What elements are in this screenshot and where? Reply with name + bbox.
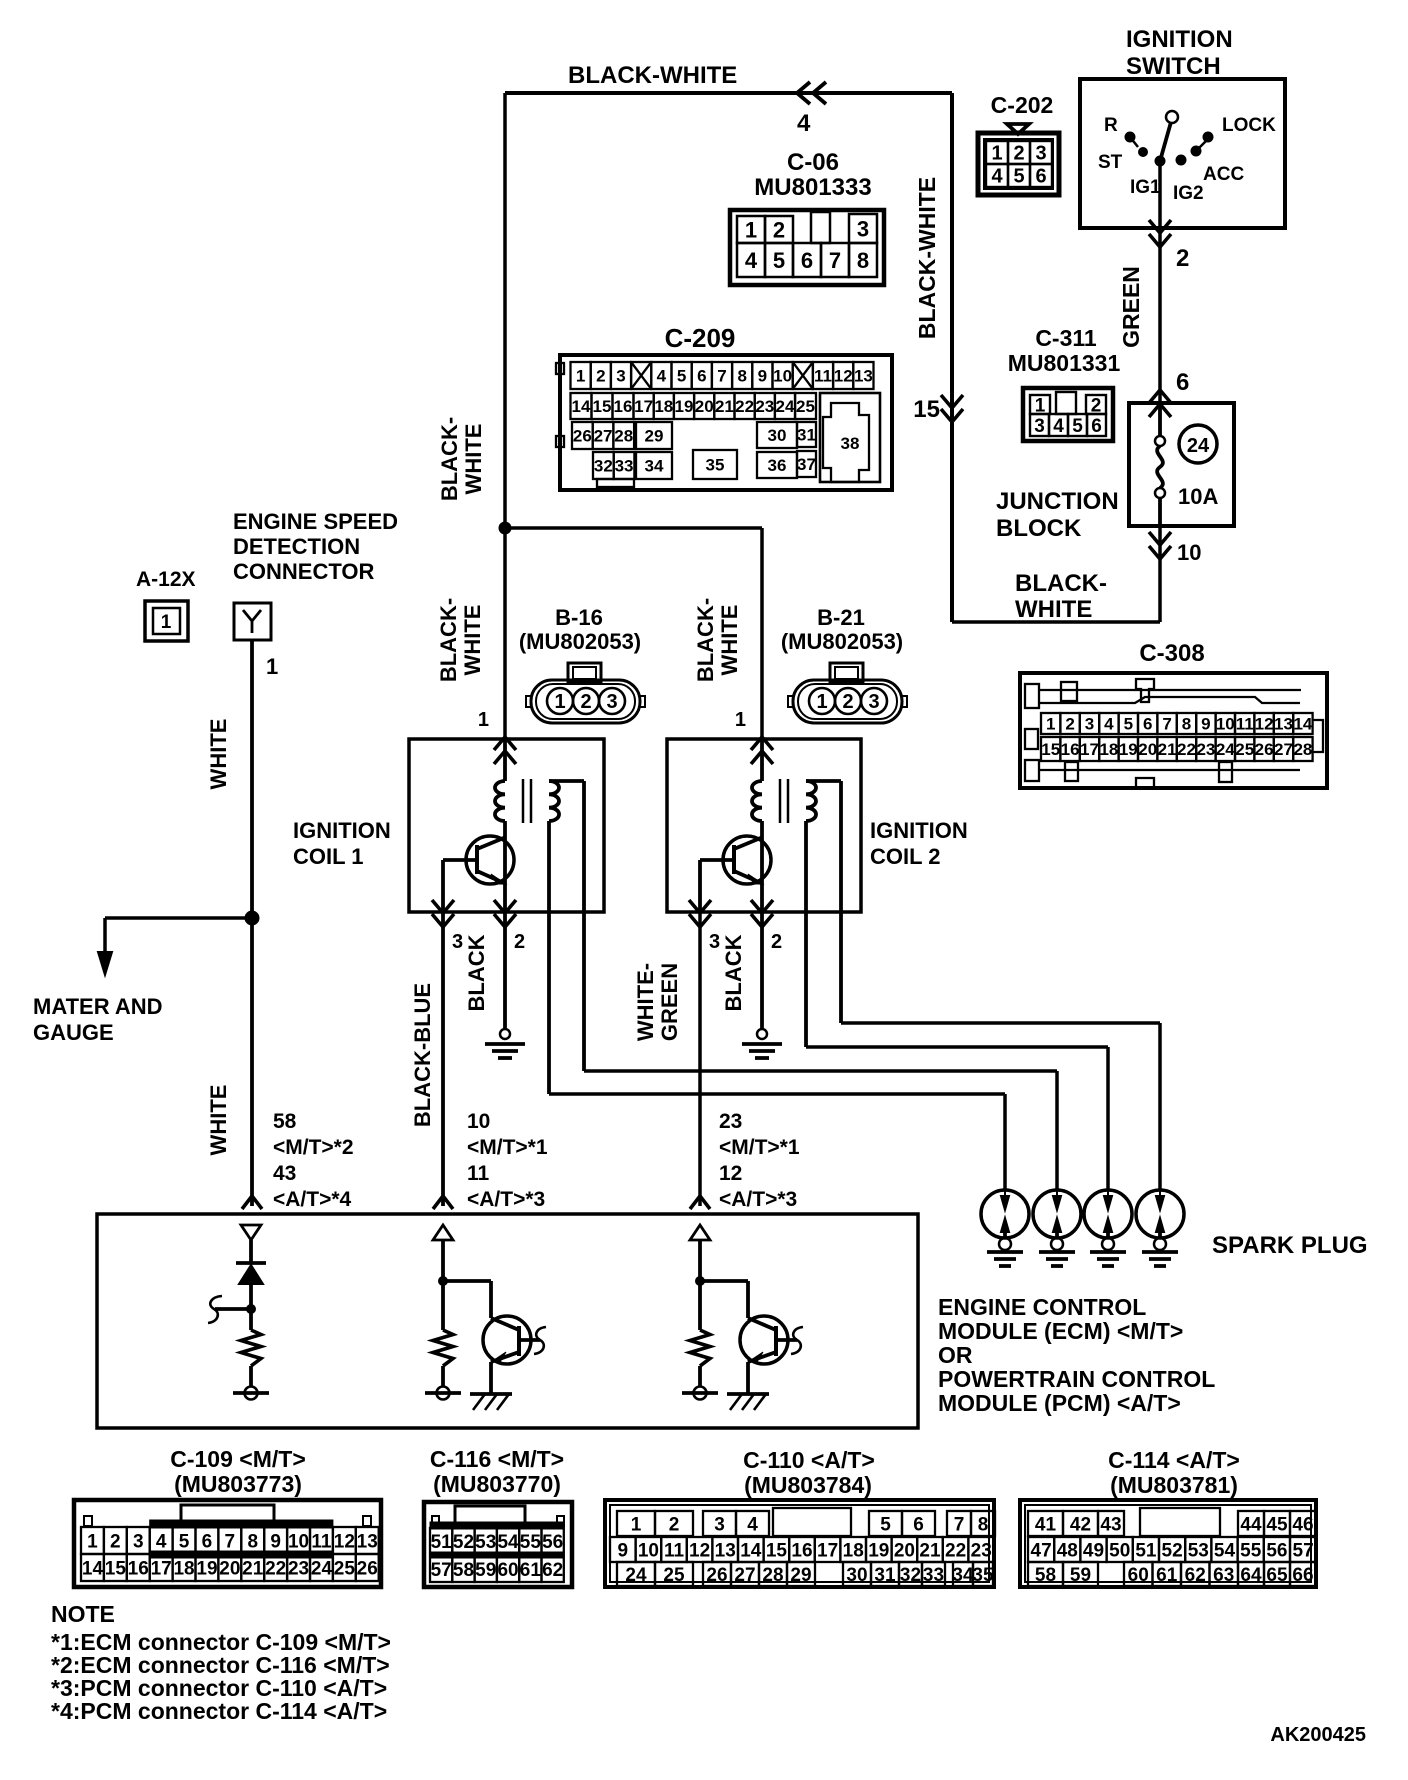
svg-text:62: 62	[542, 1560, 563, 1581]
svg-text:14: 14	[572, 397, 591, 416]
svg-text:61: 61	[520, 1560, 542, 1581]
svg-text:9: 9	[270, 1531, 281, 1552]
svg-text:42: 42	[1070, 1514, 1091, 1535]
svg-text:28: 28	[762, 1565, 783, 1586]
svg-text:(MU803770): (MU803770)	[433, 1471, 561, 1497]
svg-text:31: 31	[874, 1565, 896, 1586]
svg-text:BLACK: BLACK	[464, 934, 489, 1011]
connector C-311	[1023, 388, 1113, 441]
chassis ground channel 3	[727, 1392, 769, 1396]
wire ignition switch output green	[1158, 163, 1162, 403]
svg-text:AK200425: AK200425	[1270, 1724, 1366, 1746]
svg-text:29: 29	[790, 1565, 811, 1586]
svg-text:6: 6	[202, 1531, 213, 1552]
svg-text:34: 34	[952, 1565, 974, 1586]
svg-text:4: 4	[745, 248, 758, 273]
svg-text:14: 14	[82, 1558, 104, 1579]
svg-text:16: 16	[614, 397, 633, 416]
svg-text:53: 53	[1188, 1540, 1209, 1561]
svg-text:LOCK: LOCK	[1222, 115, 1276, 136]
svg-text:2: 2	[580, 691, 591, 713]
svg-text:4: 4	[747, 1514, 758, 1535]
coil 1 secondary winding	[549, 781, 559, 821]
svg-text:12: 12	[834, 367, 853, 386]
svg-text:14: 14	[1293, 715, 1312, 734]
svg-text:BLACK-BLUE: BLACK-BLUE	[410, 983, 435, 1127]
svg-text:25: 25	[334, 1558, 356, 1579]
svg-text:6: 6	[801, 248, 813, 273]
svg-text:C-06: C-06	[787, 149, 839, 176]
coil 2 core	[779, 779, 782, 823]
svg-text:12: 12	[719, 1162, 742, 1185]
spark plug 1	[981, 1190, 1029, 1238]
svg-text:25: 25	[663, 1565, 685, 1586]
wire coil 2 pin 2 to ground	[760, 912, 764, 1029]
svg-text:3: 3	[868, 691, 879, 713]
svg-text:58: 58	[453, 1560, 474, 1581]
svg-text:35: 35	[706, 456, 725, 475]
svg-text:64: 64	[1240, 1565, 1262, 1586]
svg-text:BLACK: BLACK	[721, 934, 746, 1011]
node junction dot channel 2	[439, 1277, 448, 1286]
wire right vertical black-white	[950, 93, 954, 622]
connector C-116	[424, 1502, 572, 1587]
wire coil1 secondary bottom to spark plug 1	[549, 1092, 1005, 1096]
wire junction horizontal to coil 2	[505, 526, 762, 530]
svg-text:43: 43	[273, 1162, 296, 1185]
svg-text:44: 44	[1240, 1514, 1262, 1535]
svg-text:C-116 <M/T>: C-116 <M/T>	[430, 1446, 564, 1472]
connector C-109 shading	[150, 1520, 333, 1528]
ground coil 1	[500, 1029, 510, 1039]
wire arrows down coil 2 pins	[689, 900, 711, 913]
wire arrows down coil 1 pins	[432, 900, 454, 913]
svg-text:54: 54	[497, 1532, 519, 1553]
svg-text:9: 9	[618, 1540, 629, 1561]
connector C-308	[1020, 673, 1327, 788]
svg-text:22: 22	[1177, 740, 1196, 759]
svg-text:GREEN: GREEN	[657, 963, 682, 1041]
engine speed detection connector symbol	[234, 603, 271, 640]
svg-text:4: 4	[991, 166, 1003, 188]
connector A-12X	[145, 601, 188, 641]
svg-text:BLACK-: BLACK-	[437, 417, 462, 501]
svg-text:53: 53	[475, 1532, 496, 1553]
svg-text:6: 6	[913, 1514, 924, 1535]
svg-text:SPARK PLUG: SPARK PLUG	[1212, 1232, 1368, 1259]
wire coil 2 pin 3 to ECM	[698, 912, 702, 1206]
svg-text:20: 20	[1138, 740, 1157, 759]
svg-text:55: 55	[1240, 1540, 1262, 1561]
svg-text:CONNECTOR: CONNECTOR	[233, 559, 374, 584]
svg-text:18: 18	[654, 397, 673, 416]
svg-text:1: 1	[478, 709, 489, 731]
svg-text:5: 5	[677, 367, 686, 386]
wire arrow up into junction block	[1149, 404, 1171, 417]
svg-text:33: 33	[615, 457, 634, 476]
svg-text:IG1: IG1	[1130, 177, 1161, 198]
svg-text:7: 7	[717, 367, 726, 386]
svg-text:WHITE: WHITE	[206, 719, 231, 790]
connector C-209 detail nubs	[556, 363, 564, 374]
svg-text:20: 20	[894, 1540, 915, 1561]
svg-text:1: 1	[161, 612, 172, 633]
svg-text:3: 3	[452, 931, 463, 953]
ground coil 2	[757, 1029, 767, 1039]
svg-text:3: 3	[1034, 416, 1045, 437]
svg-text:3: 3	[616, 367, 625, 386]
svg-text:55: 55	[520, 1532, 542, 1553]
svg-text:28: 28	[1293, 740, 1312, 759]
svg-text:21: 21	[715, 397, 734, 416]
svg-text:4: 4	[797, 110, 811, 137]
resistor ECM channel 1	[241, 1330, 261, 1366]
svg-text:16: 16	[791, 1540, 812, 1561]
connector C-202 index triangle	[1007, 124, 1029, 134]
svg-text:ENGINE SPEED: ENGINE SPEED	[233, 509, 398, 534]
svg-text:ENGINE CONTROL: ENGINE CONTROL	[938, 1294, 1146, 1320]
wire emitter to chassis ground channel 3	[746, 1362, 750, 1394]
svg-text:25: 25	[1235, 740, 1254, 759]
svg-text:19: 19	[1119, 740, 1138, 759]
svg-text:19: 19	[675, 397, 694, 416]
svg-text:1: 1	[87, 1531, 98, 1552]
svg-text:7: 7	[225, 1531, 236, 1552]
wire arrow down below junction block	[1158, 526, 1162, 622]
svg-text:52: 52	[453, 1532, 474, 1553]
svg-text:12: 12	[1255, 715, 1274, 734]
svg-text:C-308: C-308	[1139, 640, 1204, 667]
svg-text:5: 5	[1072, 416, 1083, 437]
svg-text:47: 47	[1031, 1540, 1052, 1561]
svg-text:MATER AND: MATER AND	[33, 994, 163, 1019]
connector C-209	[560, 355, 892, 490]
ECM input chevron channel 1	[242, 1196, 262, 1209]
svg-text:C-311: C-311	[1035, 325, 1097, 351]
svg-text:17: 17	[817, 1540, 838, 1561]
spark plug 3	[1084, 1190, 1132, 1238]
svg-text:24: 24	[625, 1565, 647, 1586]
fuse 24 10A	[1158, 403, 1162, 436]
wire arrow down at switch output	[1149, 220, 1171, 233]
svg-text:A-12X: A-12X	[136, 568, 196, 591]
svg-text:32: 32	[594, 457, 613, 476]
svg-text:MU801331: MU801331	[1008, 350, 1121, 376]
svg-text:51: 51	[1135, 1540, 1157, 1561]
svg-text:DETECTION: DETECTION	[233, 534, 360, 559]
svg-text:20: 20	[695, 397, 714, 416]
svg-text:1: 1	[816, 691, 827, 713]
svg-text:23: 23	[971, 1540, 992, 1561]
svg-text:2: 2	[1176, 245, 1189, 272]
svg-text:C-109 <M/T>: C-109 <M/T>	[170, 1446, 306, 1472]
svg-text:22: 22	[735, 397, 754, 416]
svg-text:4: 4	[1053, 416, 1064, 437]
svg-text:49: 49	[1083, 1540, 1104, 1561]
svg-text:BLACK-WHITE: BLACK-WHITE	[914, 177, 940, 339]
svg-text:9: 9	[1201, 715, 1210, 734]
connector C-110	[605, 1500, 994, 1587]
wire coil 1 base to pin 3	[441, 860, 445, 912]
svg-text:11: 11	[814, 367, 832, 386]
svg-text:2: 2	[842, 691, 853, 713]
svg-text:B-16: B-16	[555, 605, 603, 630]
svg-text:3: 3	[133, 1531, 144, 1552]
svg-text:10: 10	[1216, 715, 1235, 734]
svg-text:WHITE: WHITE	[717, 605, 742, 676]
transistor coil 2	[723, 836, 771, 884]
ECM input triangle channel 3	[690, 1225, 710, 1240]
svg-text:8: 8	[857, 248, 869, 273]
wire coil 1 secondary top	[549, 779, 584, 783]
svg-text:12: 12	[334, 1531, 355, 1552]
svg-text:18: 18	[843, 1540, 864, 1561]
svg-text:45: 45	[1266, 1514, 1288, 1535]
svg-text:13: 13	[357, 1531, 378, 1552]
svg-text:15: 15	[913, 396, 940, 423]
svg-text:10: 10	[1177, 540, 1201, 565]
svg-text:<M/T>*1: <M/T>*1	[719, 1136, 800, 1159]
ECM input triangle channel 2	[433, 1225, 453, 1240]
svg-text:21: 21	[919, 1540, 941, 1561]
svg-text:8: 8	[978, 1514, 989, 1535]
svg-text:(MU802053): (MU802053)	[519, 629, 641, 654]
svg-text:54: 54	[1214, 1540, 1236, 1561]
svg-text:10: 10	[773, 367, 792, 386]
connector C-116 shading	[430, 1522, 564, 1529]
svg-text:23: 23	[719, 1110, 742, 1133]
svg-text:26: 26	[706, 1565, 727, 1586]
chassis ground channel 2	[470, 1392, 512, 1396]
svg-text:36: 36	[768, 456, 787, 475]
svg-text:5: 5	[1124, 715, 1133, 734]
svg-text:33: 33	[923, 1565, 944, 1586]
svg-text:B-21: B-21	[817, 605, 865, 630]
svg-text:2: 2	[1013, 143, 1024, 165]
connector C-209 cavity 38	[820, 393, 880, 482]
ignition coil 1 box	[409, 739, 604, 912]
wire break squiggle channel 1	[215, 1307, 251, 1311]
spark plug 2	[1033, 1190, 1081, 1238]
svg-text:30: 30	[768, 426, 787, 445]
svg-text:51: 51	[431, 1532, 453, 1553]
svg-text:18: 18	[1099, 740, 1118, 759]
svg-text:<A/T>*3: <A/T>*3	[467, 1188, 545, 1211]
wire coil 2 base to pin 3	[698, 860, 702, 912]
wire arrow down on right vertical	[941, 395, 963, 408]
svg-text:IGNITION: IGNITION	[870, 818, 968, 843]
svg-text:MODULE (PCM) <A/T>: MODULE (PCM) <A/T>	[938, 1390, 1181, 1416]
svg-text:24: 24	[311, 1558, 333, 1579]
wire coil 2 secondary top	[806, 779, 841, 783]
svg-text:NOTE: NOTE	[51, 1601, 115, 1627]
ignition switch rotary contacts	[1155, 156, 1165, 166]
svg-text:11: 11	[467, 1162, 490, 1185]
svg-text:17: 17	[1080, 740, 1099, 759]
svg-text:2: 2	[110, 1531, 121, 1552]
svg-text:11: 11	[311, 1531, 332, 1552]
svg-text:27: 27	[594, 427, 613, 446]
svg-text:62: 62	[1185, 1565, 1206, 1586]
svg-text:27: 27	[734, 1565, 755, 1586]
wire emitter to chassis ground channel 2	[489, 1362, 493, 1394]
svg-text:2: 2	[771, 931, 782, 953]
wire coil 2 secondary bottom	[804, 821, 808, 1047]
svg-text:41: 41	[1035, 1514, 1057, 1535]
coil 1 core	[522, 779, 525, 823]
svg-text:1: 1	[576, 367, 585, 386]
svg-text:30: 30	[846, 1565, 867, 1586]
coil 2 secondary winding	[806, 781, 816, 821]
svg-text:4: 4	[657, 367, 667, 386]
ECM box	[97, 1214, 918, 1428]
node junction dot channel 1	[247, 1305, 256, 1314]
connector C-114	[1020, 1500, 1316, 1587]
svg-text:<M/T>*2: <M/T>*2	[273, 1136, 354, 1159]
svg-text:6: 6	[1176, 369, 1189, 396]
svg-text:IG2: IG2	[1173, 183, 1204, 204]
connector B-21	[830, 663, 863, 682]
wire black-white top horizontal	[505, 91, 952, 95]
svg-text:10A: 10A	[1178, 484, 1218, 509]
svg-text:13: 13	[1274, 715, 1293, 734]
connector B-16	[568, 663, 601, 682]
svg-text:WHITE-: WHITE-	[633, 963, 658, 1041]
svg-text:21: 21	[1158, 740, 1177, 759]
svg-text:15: 15	[1041, 740, 1060, 759]
svg-text:14: 14	[740, 1540, 762, 1561]
svg-text:29: 29	[645, 427, 664, 446]
svg-text:3: 3	[1085, 715, 1094, 734]
ECM input chevron channel 3	[690, 1196, 710, 1209]
svg-text:15: 15	[766, 1540, 788, 1561]
svg-text:5: 5	[179, 1531, 190, 1552]
resistor ECM channel 2	[433, 1330, 453, 1366]
svg-text:BLACK-: BLACK-	[693, 598, 718, 682]
svg-text:48: 48	[1057, 1540, 1078, 1561]
svg-text:R: R	[1104, 115, 1118, 136]
svg-text:WHITE: WHITE	[206, 1085, 231, 1156]
svg-text:1: 1	[735, 709, 746, 731]
svg-text:WHITE: WHITE	[461, 424, 486, 495]
svg-text:4: 4	[156, 1531, 167, 1552]
coil 1 primary winding	[503, 739, 507, 781]
svg-text:37: 37	[797, 455, 816, 474]
wire coil2 secondary bottom to spark plug 3	[806, 1045, 1108, 1049]
wire white from detection connector	[250, 640, 254, 1206]
svg-text:38: 38	[841, 434, 860, 453]
svg-text:61: 61	[1156, 1565, 1178, 1586]
svg-text:IGNITION: IGNITION	[1126, 26, 1233, 53]
svg-text:OR: OR	[938, 1342, 973, 1368]
svg-text:9: 9	[758, 367, 767, 386]
svg-text:5: 5	[773, 248, 785, 273]
svg-text:19: 19	[196, 1558, 217, 1579]
svg-text:COIL 1: COIL 1	[293, 844, 364, 869]
svg-text:60: 60	[497, 1560, 518, 1581]
svg-text:1: 1	[745, 217, 757, 242]
node junction dot white wire	[245, 911, 259, 925]
svg-text:26: 26	[573, 427, 592, 446]
wire arrow up coil 2 pin 1	[751, 751, 773, 764]
svg-text:1: 1	[991, 143, 1002, 165]
svg-text:BLACK-WHITE: BLACK-WHITE	[568, 62, 737, 89]
svg-text:24: 24	[1216, 740, 1235, 759]
wire left vertical black-white	[503, 93, 507, 739]
svg-text:24: 24	[1187, 435, 1210, 457]
svg-text:66: 66	[1292, 1565, 1313, 1586]
svg-text:16: 16	[128, 1558, 149, 1579]
svg-text:1: 1	[554, 691, 565, 713]
svg-text:WHITE: WHITE	[460, 605, 485, 676]
svg-text:POWERTRAIN CONTROL: POWERTRAIN CONTROL	[938, 1366, 1215, 1392]
svg-text:(MU803784): (MU803784)	[744, 1472, 872, 1498]
wire arrow left-pointing on top wire	[797, 82, 810, 104]
svg-text:<A/T>*3: <A/T>*3	[719, 1188, 797, 1211]
svg-text:27: 27	[1274, 740, 1293, 759]
svg-text:24: 24	[776, 397, 795, 416]
svg-text:60: 60	[1128, 1565, 1149, 1586]
svg-text:(MU803781): (MU803781)	[1110, 1472, 1238, 1498]
svg-text:IGNITION: IGNITION	[293, 818, 391, 843]
svg-text:BLACK-: BLACK-	[436, 598, 461, 682]
junction block box	[1129, 403, 1234, 526]
svg-text:MU801333: MU801333	[754, 174, 871, 201]
svg-text:C-110 <A/T>: C-110 <A/T>	[743, 1447, 875, 1473]
svg-text:1: 1	[631, 1514, 642, 1535]
svg-text:ACC: ACC	[1203, 164, 1244, 185]
svg-text:22: 22	[945, 1540, 966, 1561]
wire arrow up coil 1 pin 1	[494, 751, 516, 764]
svg-text:5: 5	[1013, 166, 1024, 188]
svg-text:18: 18	[173, 1558, 194, 1579]
node junction dot channel 3	[696, 1277, 705, 1286]
wire to transistor base channel 2	[443, 1279, 491, 1283]
svg-text:7: 7	[954, 1514, 965, 1535]
spark plug 4	[1136, 1190, 1184, 1238]
svg-text:10: 10	[638, 1540, 659, 1561]
svg-text:32: 32	[900, 1565, 921, 1586]
svg-text:<M/T>*1: <M/T>*1	[467, 1136, 548, 1159]
svg-text:1: 1	[1046, 715, 1055, 734]
svg-text:58: 58	[273, 1110, 297, 1133]
transistor coil 1	[466, 836, 514, 884]
svg-text:65: 65	[1266, 1565, 1288, 1586]
svg-text:6: 6	[1035, 166, 1046, 188]
svg-text:*4:PCM connector C-114 <A/T>: *4:PCM connector C-114 <A/T>	[51, 1698, 387, 1724]
coil 2 primary winding	[760, 739, 764, 781]
transistor ECM channel 3	[740, 1316, 788, 1364]
svg-text:8: 8	[737, 367, 746, 386]
svg-text:SWITCH: SWITCH	[1126, 53, 1221, 80]
svg-text:C-202: C-202	[991, 92, 1054, 118]
svg-text:6: 6	[697, 367, 706, 386]
ignition switch box	[1080, 79, 1285, 228]
svg-text:17: 17	[151, 1558, 172, 1579]
svg-text:57: 57	[1293, 1540, 1314, 1561]
svg-text:3: 3	[1035, 143, 1046, 165]
svg-text:MODULE (ECM) <M/T>: MODULE (ECM) <M/T>	[938, 1318, 1183, 1344]
svg-text:8: 8	[1182, 715, 1191, 734]
connector C-109	[74, 1500, 381, 1587]
svg-text:23: 23	[1196, 740, 1215, 759]
svg-text:12: 12	[689, 1540, 710, 1561]
wire coil1 secondary top to spark plug 2	[584, 1069, 1057, 1073]
svg-text:58: 58	[1035, 1565, 1056, 1586]
svg-text:6: 6	[1091, 416, 1102, 437]
svg-text:1: 1	[266, 654, 278, 679]
svg-text:26: 26	[357, 1558, 378, 1579]
